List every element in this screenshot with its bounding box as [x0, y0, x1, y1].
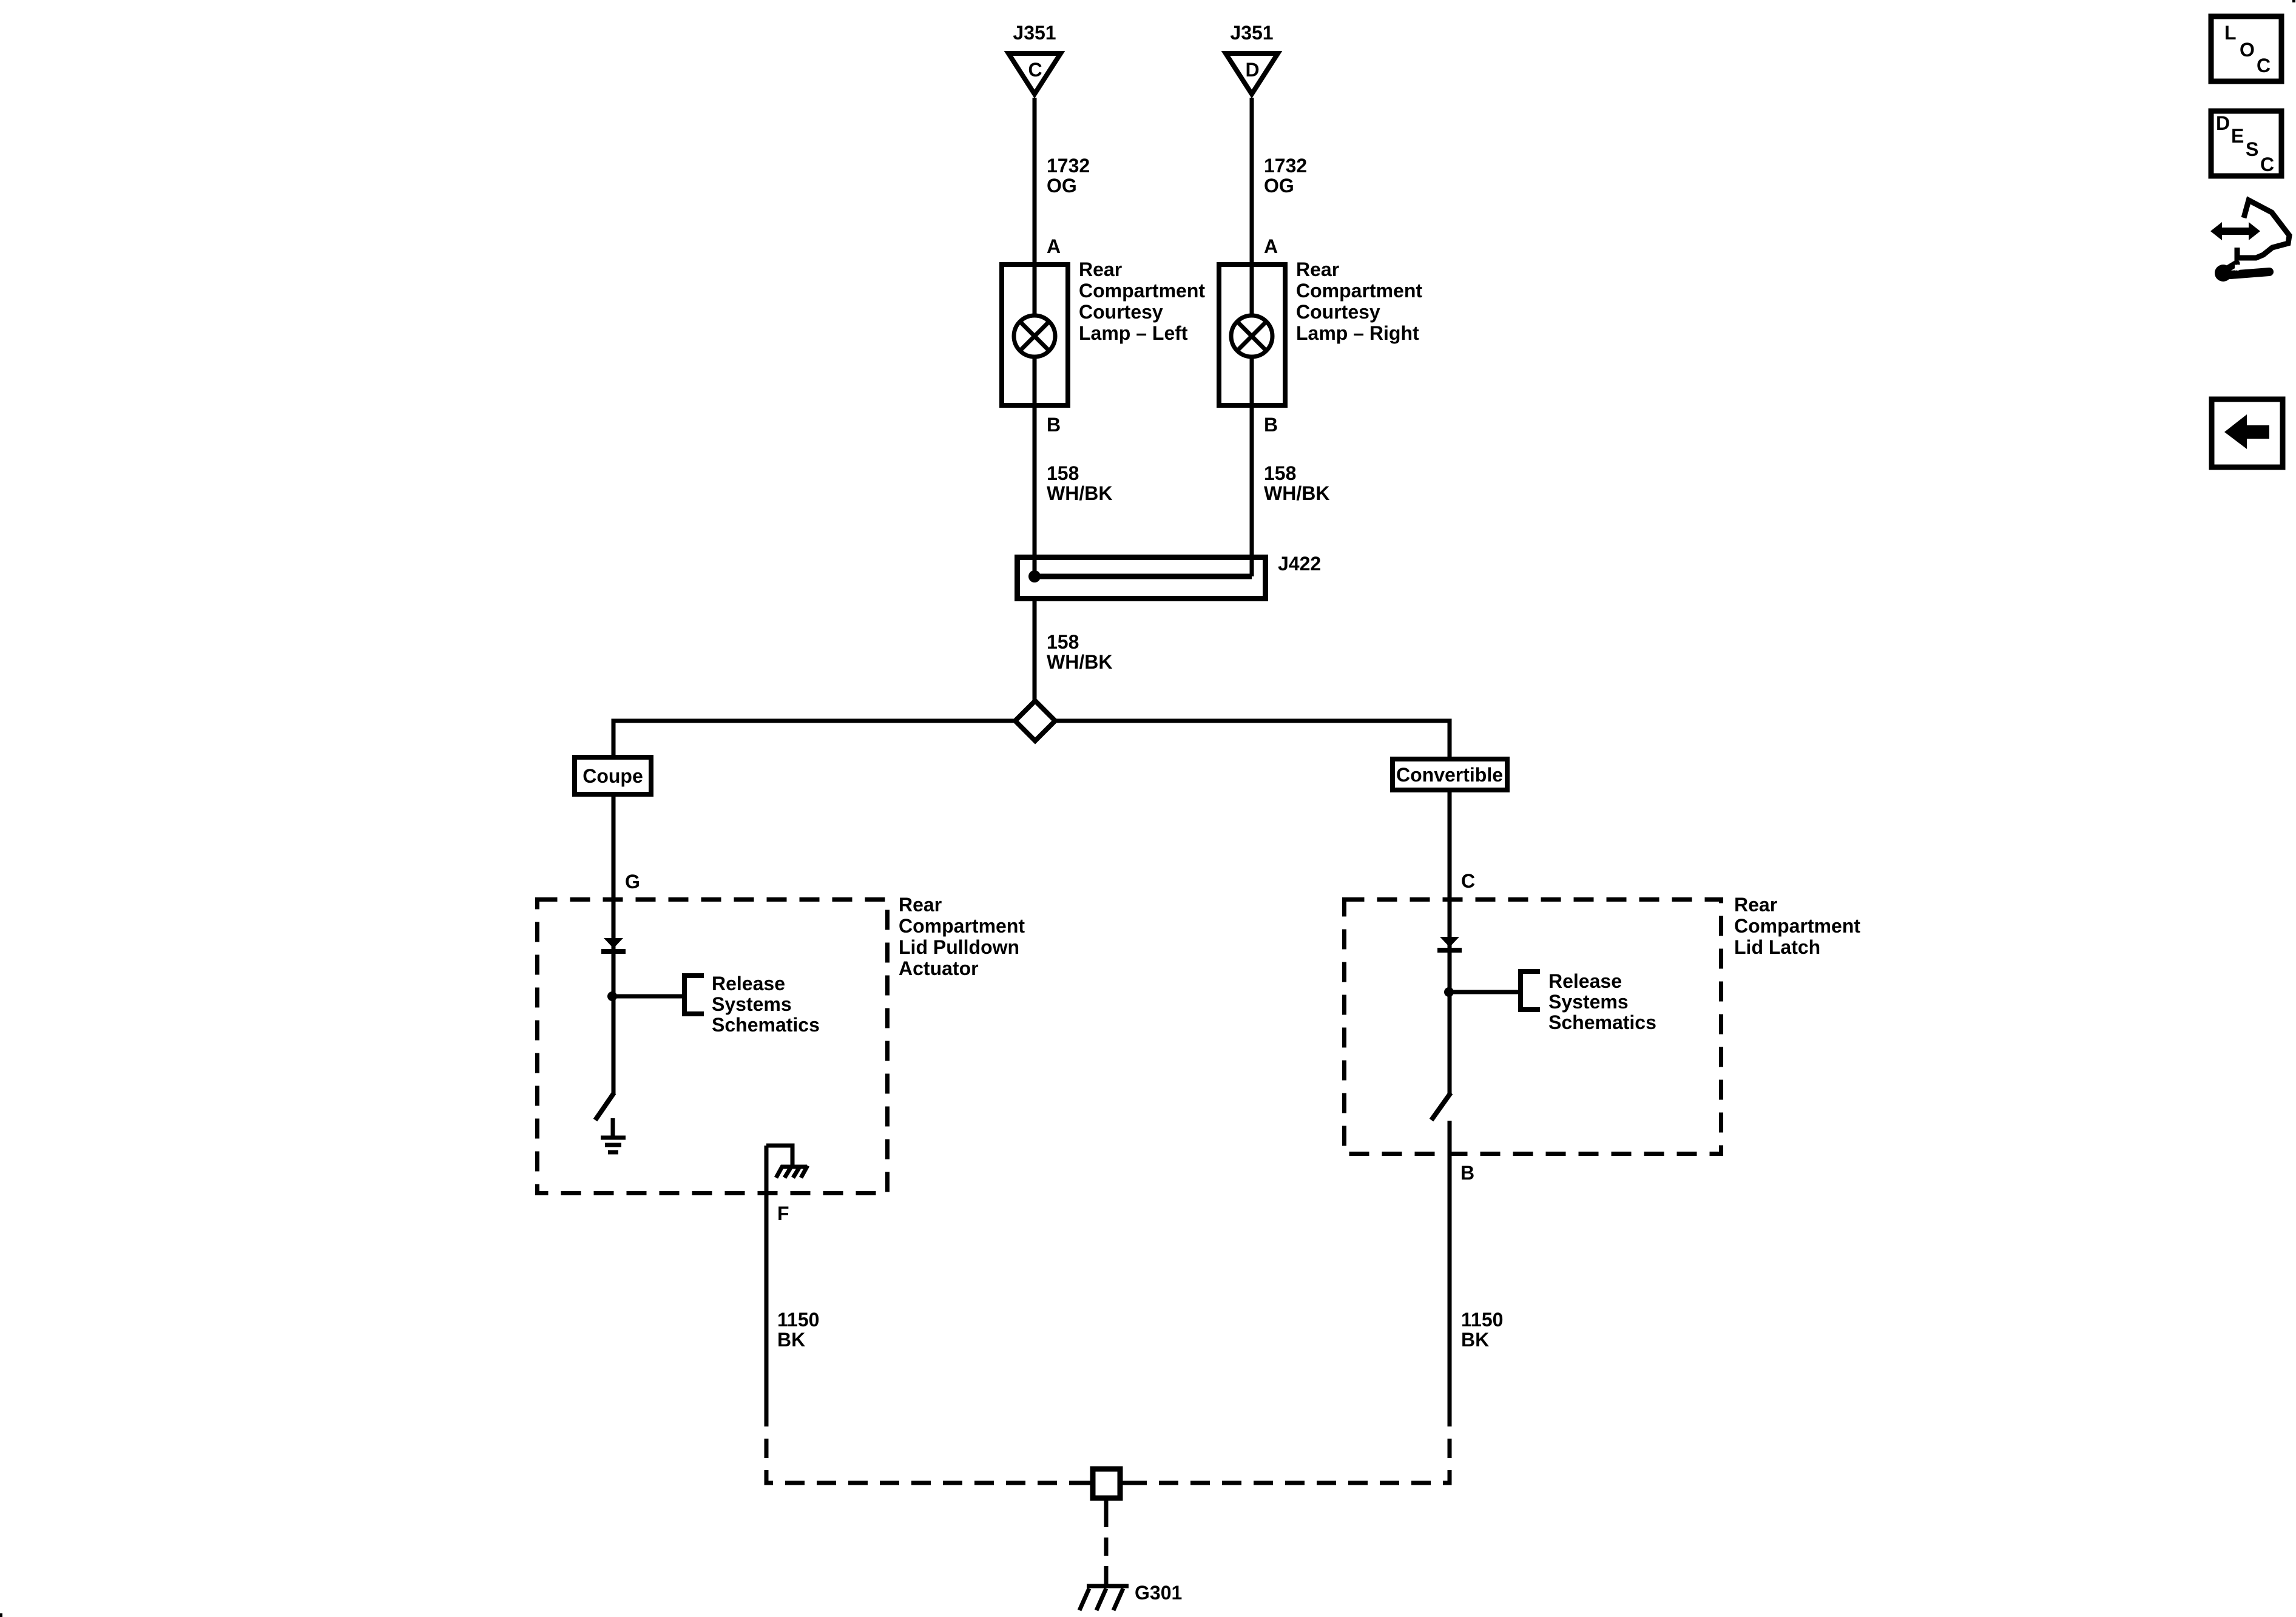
wire 158 WH/BK below splice [1033, 601, 1037, 702]
svg-text:J351: J351 [1230, 22, 1273, 44]
lamp symbol left [1014, 316, 1055, 357]
wire Convertible to latch [1448, 792, 1452, 1094]
svg-text:B: B [1460, 1162, 1474, 1184]
wire 1732 OG left [1033, 98, 1037, 262]
svg-text:E: E [2231, 125, 2244, 147]
svg-text:Convertible: Convertible [1396, 764, 1503, 786]
node junction dot left [607, 991, 617, 1001]
dashed wire left to G301 [766, 1407, 1083, 1483]
Coupe option box [575, 757, 651, 794]
svg-text:F: F [777, 1203, 789, 1224]
rear compartment lid pulldown actuator dashed box [538, 900, 888, 1193]
sidebar repair icon wrench [2215, 263, 2269, 282]
connector J351 D triangle [1226, 53, 1278, 94]
rear compartment lid latch dashed box [1345, 900, 1721, 1154]
svg-text:C: C [2260, 154, 2274, 175]
splice J422 box [1018, 558, 1266, 599]
sidebar repair icon arrows [2210, 222, 2260, 240]
svg-text:J422: J422 [1278, 553, 1321, 575]
svg-text:S: S [2246, 138, 2258, 160]
svg-text:A: A [1047, 235, 1061, 257]
wire bus to Coupe branch [613, 721, 1015, 755]
splice J422 bus [1035, 574, 1252, 579]
svg-text:G301: G301 [1135, 1582, 1182, 1604]
ground G301 symbol [1079, 1586, 1129, 1610]
release systems bracket left [684, 976, 704, 1014]
node junction dot right [1444, 987, 1454, 997]
switch blade left [595, 1093, 614, 1120]
lamp symbol right [1231, 316, 1272, 357]
wire through lamp left [1033, 262, 1037, 408]
svg-text:Coupe: Coupe [582, 765, 643, 787]
svg-text:D: D [2216, 112, 2230, 134]
ground splice box [1093, 1469, 1120, 1498]
sidebar repair icon outline [2237, 200, 2289, 258]
svg-text:O: O [2240, 39, 2255, 61]
ground splice stubs [1083, 1483, 1130, 1509]
wire tap to release systems right [1449, 990, 1521, 994]
wire latch switch to B [1448, 1121, 1452, 1407]
svg-text:B: B [1264, 414, 1278, 436]
lamp E4L box [1002, 265, 1068, 405]
chassis ground branch in actuator [766, 1146, 808, 1178]
wire F to ground [765, 1146, 769, 1407]
svg-text:L: L [2224, 22, 2237, 44]
svg-text:B: B [1047, 414, 1061, 436]
sidebar DESC button [2211, 111, 2281, 176]
diode left [604, 938, 623, 948]
dashed wire to G301 ground [1104, 1509, 1109, 1584]
option split diamond [1015, 701, 1055, 741]
svg-text:J351: J351 [1013, 22, 1056, 44]
svg-text:G: G [625, 871, 640, 893]
svg-text:C: C [2257, 55, 2271, 76]
svg-text:D: D [1245, 59, 1259, 81]
sidebar back button [2212, 399, 2283, 467]
svg-text:A: A [1264, 235, 1278, 257]
switch blade right [1431, 1093, 1451, 1120]
svg-text:C: C [1461, 870, 1475, 892]
wire through lamp right [1250, 262, 1254, 408]
lamp E4R box [1219, 265, 1285, 405]
wire 158 WH/BK left [1033, 408, 1037, 576]
ground symbol in actuator [601, 1118, 626, 1152]
connector J351 C triangle [1008, 53, 1061, 94]
Convertible option box [1393, 759, 1507, 790]
sidebar LOC button [2211, 16, 2281, 81]
scan dot bottom left [0, 1613, 2, 1617]
wire Coupe to actuator [612, 797, 616, 1094]
dashed wire right to G301 [1130, 1407, 1450, 1483]
release systems bracket right [1521, 971, 1540, 1010]
wire 1732 OG right [1250, 98, 1254, 262]
wire 158 WH/BK right [1250, 408, 1254, 576]
scan dot top right [2292, 0, 2295, 2]
wire tap to release systems left [612, 994, 684, 999]
splice junction dot [1028, 570, 1041, 582]
wire bus to Convertible branch [1055, 721, 1450, 757]
diode right [1440, 937, 1459, 947]
sidebar back arrow [2224, 414, 2269, 449]
svg-text:C: C [1028, 59, 1042, 81]
